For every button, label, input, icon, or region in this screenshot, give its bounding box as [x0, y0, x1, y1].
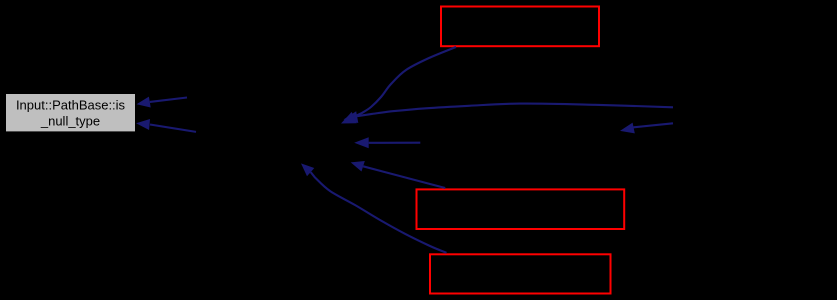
node Input::PathBase::is_null_type	[6, 94, 135, 131]
edge E upper arrow into gray box	[150, 98, 187, 102]
node box middle right (red)	[417, 189, 625, 229]
arrowhead G	[620, 123, 635, 134]
edge F lower arrow into gray box	[150, 125, 196, 132]
edge B horizontal arrow middle	[369, 142, 421, 144]
arrowhead C	[351, 161, 365, 172]
arrowhead E	[137, 97, 151, 108]
svg-text:Input::PathBase::is: Input::PathBase::is	[16, 98, 126, 113]
arrowhead S	[341, 112, 357, 124]
svg-text:_null_type: _null_type	[40, 113, 100, 128]
edge C from middle red box	[363, 166, 445, 188]
arrowhead B	[354, 137, 369, 148]
edge H long shallow curve	[357, 104, 673, 117]
edge D curve from bottom red box	[311, 172, 447, 253]
edge G short arrow right side	[634, 123, 674, 127]
edge S steep curve from top box	[353, 47, 456, 117]
arrowhead D	[301, 163, 314, 176]
node box top (red)	[441, 7, 599, 47]
arrowhead F	[136, 119, 150, 130]
node box bottom (red)	[430, 254, 611, 293]
arrowhead H	[344, 111, 359, 123]
